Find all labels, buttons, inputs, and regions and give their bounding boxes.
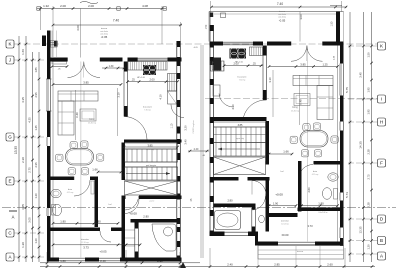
right grid letter boxes — [378, 42, 386, 50]
right unit party wall left — [209, 25, 211, 236]
svg-text:CURTE engleza: CURTE engleza — [193, 121, 195, 134]
svg-text:parter: parter — [150, 200, 155, 203]
right bath toilet — [322, 188, 331, 200]
vertical reference line right unit — [307, 46, 309, 242]
right party wall terrace black cap — [210, 13, 213, 18]
right coffee table — [294, 94, 310, 106]
right unit inner face line — [337, 46, 339, 243]
right sofa vertical part — [317, 86, 333, 120]
left grid letter boxes — [6, 40, 14, 48]
left stairs bottom wall — [122, 196, 126, 200]
window right 2 — [339, 122, 341, 131]
section marker bottom — [180, 262, 186, 268]
left stair run 2 treads — [125, 167, 178, 180]
svg-text:1.66: 1.66 — [283, 150, 289, 154]
right top wall segment 4 — [210, 42, 224, 46]
svg-text:+0.00: +0.00 — [275, 193, 283, 197]
top chain equality wave mark — [80, 2, 98, 4]
svg-text:4.10: 4.10 — [159, 94, 163, 100]
svg-text:6.48: 6.48 — [299, 99, 303, 105]
svg-text:1.95: 1.95 — [367, 87, 371, 93]
svg-text:pod treapta: pod treapta — [146, 164, 157, 167]
junction blocks — [122, 177, 126, 181]
left lower bath vanity — [152, 224, 176, 251]
right unit exterior right wall — [340, 42, 344, 64]
svg-text:7.30 mp: 7.30 mp — [144, 110, 151, 112]
grid stub right — [348, 253, 378, 255]
left bath sink — [51, 189, 61, 197]
left C wall door + arc — [100, 231, 111, 242]
left interior dim line y84 — [53, 84, 121, 86]
svg-text:7.40: 7.40 — [277, 2, 283, 6]
left porch wall stub — [47, 31, 51, 58]
right dining table — [300, 131, 328, 148]
right wall segment 4 — [340, 201, 344, 228]
right bath top wall F — [314, 161, 341, 165]
svg-text:1.80: 1.80 — [60, 219, 66, 223]
right bath sink — [328, 173, 338, 181]
right kitchen door arc — [244, 100, 267, 117]
svg-text:K: K — [380, 44, 383, 49]
svg-text:bucatarie: bucatarie — [143, 106, 153, 109]
svg-text:2.80: 2.80 — [143, 215, 149, 219]
grid stub left — [14, 256, 44, 258]
right stair X cross box — [214, 157, 266, 175]
left entry cabinet — [52, 59, 67, 64]
right kitchen dim line — [224, 65, 263, 67]
svg-text:hol: hol — [109, 204, 112, 206]
left unit party wall right — [176, 41, 178, 262]
svg-text:2.75: 2.75 — [28, 167, 32, 173]
svg-text:1.80: 1.80 — [318, 202, 324, 206]
left stair X cross box — [125, 181, 178, 195]
svg-text:living: living — [292, 106, 298, 109]
left bath top wall E — [51, 177, 75, 181]
left bath shelf — [91, 181, 94, 194]
svg-text:2.40: 2.40 — [194, 148, 199, 151]
svg-text:2.95: 2.95 — [34, 92, 38, 98]
bottom dimension chain line 2 — [40, 266, 375, 268]
svg-text:3.85: 3.85 — [147, 143, 153, 147]
svg-text:13.35: 13.35 — [14, 146, 18, 154]
right unit top wall — [323, 42, 341, 46]
svg-text:3.85: 3.85 — [300, 63, 306, 67]
svg-text:I: I — [381, 97, 382, 102]
left vanity sink circle — [164, 227, 173, 236]
svg-text:3.05: 3.05 — [21, 204, 25, 210]
svg-text:4.35: 4.35 — [21, 97, 25, 103]
left lower door arc — [125, 196, 139, 210]
left wall segment 2 — [47, 111, 51, 137]
svg-text:2.40: 2.40 — [227, 262, 233, 266]
left unit inner face line — [52, 61, 54, 258]
left interior wall G horizontal — [124, 140, 182, 143]
right kitchen stove dark — [230, 49, 247, 59]
svg-text:1.95: 1.95 — [367, 109, 371, 115]
grid stub left — [14, 232, 44, 234]
grid line K horizontal dash-dot — [14, 43, 378, 45]
left kitchen counter hatch — [128, 62, 167, 71]
right bath door opening — [299, 165, 313, 179]
left porch column — [42, 36, 46, 47]
svg-text:A: A — [8, 255, 11, 260]
svg-text:terasa: terasa — [279, 10, 286, 13]
left top wall segment 3 — [128, 58, 138, 62]
left sofa vertical part — [58, 101, 74, 135]
right interior vertical wall hall — [266, 121, 270, 161]
right unit bottom wall A segment — [210, 232, 225, 237]
svg-text:-0.05: -0.05 — [279, 18, 286, 22]
svg-text:-0.05: -0.05 — [101, 35, 108, 39]
svg-text:1.50: 1.50 — [367, 52, 371, 58]
right wall segment 3 — [340, 131, 344, 193]
left top wall segment 4 — [168, 58, 182, 62]
svg-text:1.90: 1.90 — [95, 219, 101, 223]
right step wall — [255, 232, 258, 246]
left stair landing — [125, 143, 178, 149]
right wall segment 2 — [340, 96, 344, 122]
left dining table — [66, 149, 94, 166]
bottom window 1 — [59, 257, 85, 259]
right stair arrow — [218, 148, 260, 150]
left chairs — [70, 142, 77, 149]
left closet shelves — [125, 229, 135, 231]
grid stub right — [348, 240, 378, 242]
right bath left wall — [298, 165, 302, 209]
left bottom interior dim — [53, 244, 140, 246]
svg-text:A: A — [380, 254, 383, 259]
left kitchen dim line — [128, 81, 178, 83]
right stair hall door — [252, 181, 266, 195]
right washing machine — [213, 85, 220, 96]
window right living — [339, 64, 341, 96]
right terrace bottom deck — [258, 246, 344, 260]
grid stub right — [348, 98, 378, 100]
right top wall segment 3 — [253, 42, 263, 46]
grid stub right — [348, 162, 378, 164]
svg-text:1.45: 1.45 — [34, 125, 38, 131]
left wall C horizontal — [51, 228, 101, 232]
svg-text:+0.05: +0.05 — [99, 250, 107, 254]
grid stub left — [14, 59, 44, 61]
svg-text:3.05: 3.05 — [28, 217, 32, 223]
svg-text:1.66: 1.66 — [92, 168, 98, 172]
svg-text:4.08: 4.08 — [142, 4, 148, 8]
right stairs bottom wall — [214, 177, 239, 181]
left sofa horizontal part — [58, 91, 98, 101]
svg-text:2.60: 2.60 — [307, 187, 311, 193]
svg-text:13.35: 13.35 — [359, 226, 363, 233]
svg-text:3.10: 3.10 — [268, 77, 272, 83]
svg-text:3.20: 3.20 — [184, 125, 188, 131]
right tub bath side wall — [251, 207, 253, 232]
left top wall segment 2 — [100, 58, 123, 62]
svg-text:1.30: 1.30 — [109, 65, 114, 68]
svg-text:+0.00: +0.00 — [129, 212, 137, 216]
svg-text:B: B — [380, 238, 383, 243]
svg-text:3.73: 3.73 — [83, 245, 89, 249]
right interior wall H horizontal — [212, 117, 267, 121]
right top wall segment 2 — [267, 42, 291, 46]
gap boundary line left — [200, 45, 202, 258]
window left 2 — [46, 137, 48, 146]
svg-text:2.28: 2.28 — [367, 202, 371, 208]
right small wc toilet — [259, 215, 265, 222]
bottom extension lines — [46, 252, 48, 268]
svg-text:dormitor: dormitor — [281, 220, 289, 223]
right stair run 2 treads — [214, 143, 266, 157]
right boiler dark block — [214, 58, 222, 71]
left coffee table — [80, 109, 96, 121]
right kitchen counter hatch — [250, 47, 263, 56]
svg-text:1.20: 1.20 — [367, 244, 371, 250]
right tub bathroom — [215, 211, 241, 230]
svg-text:1.90: 1.90 — [273, 201, 279, 205]
svg-text:1.20: 1.20 — [21, 242, 25, 248]
left stair treads run 1 — [125, 149, 178, 162]
svg-text:2.60: 2.60 — [327, 262, 333, 266]
right dormitor top wall jog — [269, 213, 298, 217]
svg-text:5.75: 5.75 — [345, 87, 349, 93]
svg-text:HP+1.00: HP+1.00 — [137, 77, 146, 79]
left bath toilet — [52, 204, 61, 216]
left bath right wall — [95, 180, 99, 227]
svg-text:bucatarie: bucatarie — [238, 76, 248, 79]
window right lower — [339, 228, 341, 239]
svg-text:2.00: 2.00 — [88, 4, 94, 8]
right unit bottom wall B segment — [258, 242, 278, 246]
left kitchen door arc — [124, 117, 147, 140]
svg-text:spre etaj: spre etaj — [236, 137, 244, 140]
svg-text:terasa: terasa — [297, 250, 304, 253]
svg-text:3.10: 3.10 — [117, 92, 121, 98]
svg-text:1.10: 1.10 — [171, 123, 174, 128]
svg-text:12.04 mp: 12.04 mp — [281, 224, 289, 226]
svg-text:2.75: 2.75 — [367, 174, 371, 180]
svg-text:7.30 mp: 7.30 mp — [239, 80, 246, 82]
svg-text:1.20: 1.20 — [34, 193, 38, 199]
svg-text:2.00: 2.00 — [149, 78, 155, 82]
left lower room top wall — [131, 219, 178, 223]
svg-text:25.40 mp: 25.40 mp — [88, 123, 96, 125]
right kitchen counter left party — [211, 61, 225, 71]
right entry double door — [290, 42, 292, 46]
grid stub left — [14, 180, 44, 182]
terrace corner marker box — [221, 13, 226, 18]
svg-text:2.00: 2.00 — [60, 4, 66, 8]
svg-text:2.85: 2.85 — [274, 262, 280, 266]
right stair landing — [214, 122, 266, 127]
grid stub right — [348, 121, 378, 123]
grid line I horizontal dashed — [205, 98, 378, 100]
svg-text:±0.00: ±0.00 — [282, 233, 289, 237]
svg-text:dormitor: dormitor — [81, 238, 89, 241]
grid stub left — [14, 136, 44, 138]
svg-text:1.20: 1.20 — [34, 238, 38, 244]
svg-text:4.10: 4.10 — [231, 104, 235, 110]
svg-text:1.32: 1.32 — [43, 4, 49, 8]
grid stub right — [348, 218, 378, 220]
svg-text:4.35: 4.35 — [28, 117, 32, 123]
svg-text:2.30: 2.30 — [21, 157, 25, 163]
section line A-A horizontal dash-dot — [2, 207, 396, 209]
svg-text:7.40: 7.40 — [113, 19, 119, 23]
svg-text:J: J — [9, 58, 11, 63]
svg-text:living: living — [89, 118, 95, 121]
svg-text:3.00: 3.00 — [299, 14, 303, 20]
window right bath — [339, 193, 341, 201]
right sofa horizontal part — [293, 76, 333, 86]
svg-text:3.45: 3.45 — [359, 72, 363, 78]
svg-text:3.00: 3.00 — [76, 25, 80, 31]
right lower door arc — [252, 196, 266, 210]
svg-text:A: A — [12, 215, 15, 220]
right top window band kitchen — [223, 41, 253, 43]
svg-text:1.50: 1.50 — [331, 21, 334, 26]
left dimension chain lines — [18, 36, 20, 262]
left kitchen stove dark — [143, 65, 156, 75]
svg-text:G: G — [8, 135, 12, 140]
right chairs — [303, 124, 310, 131]
svg-text:12.10 mp: 12.10 mp — [81, 242, 89, 244]
left porch step dark block — [54, 41, 58, 47]
svg-text:1.25: 1.25 — [322, 63, 328, 67]
svg-text:terasa: terasa — [101, 27, 108, 30]
left unit bottom wall — [47, 258, 59, 262]
left porch steps — [51, 41, 58, 43]
svg-text:4.15 mp: 4.15 mp — [312, 174, 319, 176]
right stair treads run 1 — [214, 127, 266, 143]
svg-text:H: H — [380, 120, 383, 125]
svg-text:4.15 mp: 4.15 mp — [67, 192, 74, 194]
svg-text:14.35: 14.35 — [359, 141, 363, 149]
svg-text:3.73: 3.73 — [307, 224, 313, 228]
vertical reference line left unit — [80, 62, 82, 258]
svg-text:2.35: 2.35 — [34, 162, 38, 168]
top dimension chain left unit upper — [37, 8, 166, 10]
svg-text:1.50: 1.50 — [206, 24, 208, 29]
window left living — [46, 79, 48, 111]
bath door opening — [73, 177, 75, 181]
left kitchen vertical wall — [123, 62, 125, 117]
top extension lines right — [210, 1, 212, 26]
left top window band kitchen — [137, 58, 139, 62]
svg-text:F: F — [380, 161, 383, 166]
left porch inner face line — [51, 31, 53, 58]
grid stub right — [348, 45, 378, 47]
svg-text:1.66: 1.66 — [21, 49, 25, 55]
right interior dim line y66 — [269, 66, 338, 68]
svg-text:1.85: 1.85 — [34, 67, 38, 73]
left lower room vertical wall — [134, 223, 136, 258]
left unit top wall — [51, 58, 68, 62]
right dimension chain lines — [349, 12, 351, 262]
left stair under-G dim — [124, 146, 178, 148]
left interior vertical wall hall — [122, 143, 126, 177]
svg-text:K: K — [8, 42, 11, 47]
left entry double door — [67, 58, 69, 62]
svg-text:2.00: 2.00 — [233, 62, 239, 66]
top dim line short right corner — [330, 5, 342, 7]
svg-text:spre etaj: spre etaj — [146, 148, 154, 151]
bottom dimension chain line 1 — [40, 262, 200, 264]
svg-text:E: E — [8, 179, 11, 184]
left stair arrow — [126, 173, 170, 175]
left fridge door arc — [171, 105, 184, 118]
left kitchen counter vertical hatch — [168, 74, 177, 92]
svg-text:cota finita: cota finita — [278, 13, 286, 16]
left wall segment 3 — [47, 146, 51, 208]
top extension lines left — [40, 6, 42, 30]
bottom window 2 — [99, 257, 120, 259]
svg-text:25.40 mp: 25.40 mp — [291, 111, 299, 113]
svg-text:LH=2.08 m: LH=2.08 m — [319, 212, 328, 214]
right fridge door arc — [219, 94, 234, 108]
stair hall door — [125, 199, 140, 214]
svg-text:cota finita: cota finita — [100, 30, 108, 33]
window left bath — [46, 208, 48, 216]
right terrace wall stub right — [336, 12, 340, 42]
left unit exterior left wall — [47, 57, 51, 79]
svg-text:hol: hol — [281, 171, 284, 173]
right kitchen vertical wall — [262, 46, 264, 101]
left wall segment 4 — [47, 216, 51, 262]
right terrace top outline — [209, 11, 344, 13]
svg-text:5.73: 5.73 — [345, 192, 349, 198]
bottom window right unit — [278, 241, 315, 243]
svg-text:2.28: 2.28 — [367, 149, 371, 155]
svg-text:2.80: 2.80 — [227, 199, 233, 203]
porch depth dim line left — [80, 9, 82, 58]
right tub bath top wall — [214, 204, 252, 208]
svg-text:3.85: 3.85 — [83, 80, 89, 84]
left interior dim line y68 — [102, 67, 124, 69]
left fridge — [168, 91, 177, 104]
svg-text:3.40: 3.40 — [184, 139, 188, 145]
right wall D horizontal — [298, 208, 341, 212]
